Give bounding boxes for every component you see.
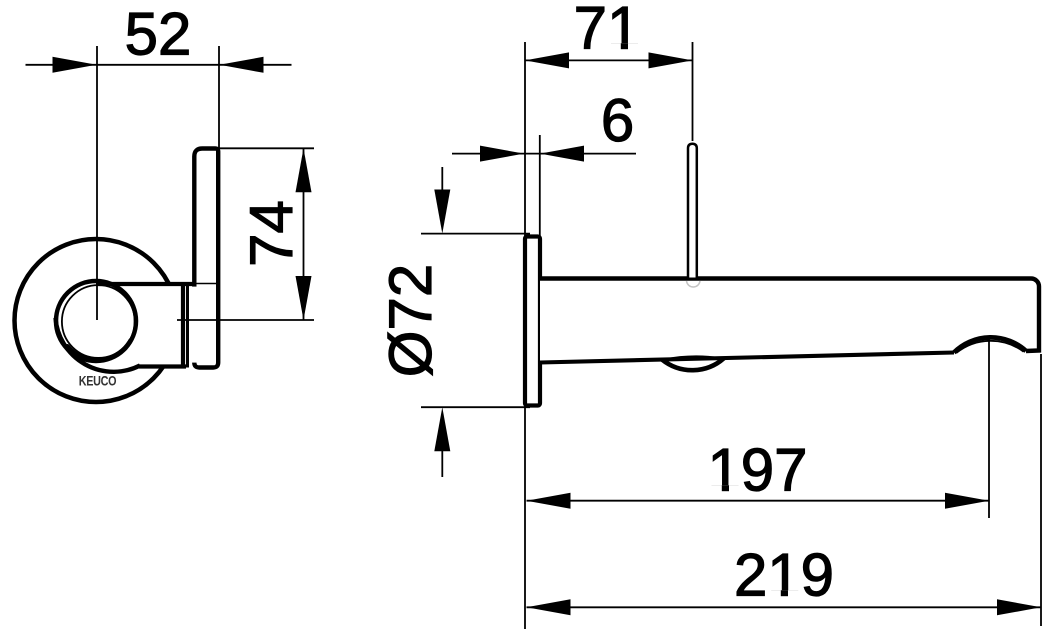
dim 52: dimension line with outside arrows bbox=[26, 57, 292, 73]
left view: hub top thin line across lever bbox=[191, 287, 197, 363]
right view: spout outlet notch double arc bbox=[954, 337, 1026, 352]
dim 74: label rotated bbox=[238, 200, 305, 267]
dim D72: bottom extension line bbox=[421, 406, 530, 408]
dim 6: dimension line with outside arrows bbox=[452, 146, 636, 162]
svg-text:219: 219 bbox=[734, 542, 834, 609]
dim 52: label bbox=[125, 1, 192, 68]
dim text foot-serif cleanup on digit 1 glyphs bbox=[607, 43, 800, 597]
dim 6: right extension line bbox=[539, 135, 541, 237]
left view: knob inner face circle bbox=[62, 285, 135, 358]
left view: hub right edge bbox=[181, 282, 185, 366]
dim 6: label bbox=[601, 87, 634, 154]
dim 71: left extension line bbox=[524, 42, 526, 629]
left view: hub rectangle white fill bbox=[98, 286, 182, 365]
dim 74: top extension line bbox=[205, 147, 314, 149]
svg-text:Ø72: Ø72 bbox=[377, 264, 444, 377]
svg-text:197: 197 bbox=[707, 437, 807, 504]
left view: hub bottom edge bbox=[139, 364, 186, 368]
left view: lever joint inner line bbox=[186, 284, 189, 368]
dim 197: dimension line with inside arrows bbox=[527, 493, 990, 509]
dim 71: right extension line bbox=[692, 42, 694, 141]
svg-text:52: 52 bbox=[125, 1, 192, 68]
right view: stick collar below spout top bbox=[687, 281, 701, 287]
left view: knob bottom crescent arc bbox=[67, 341, 130, 361]
right view: aerator bump arc under spout bbox=[662, 356, 724, 370]
dim D72: vertical line with outside arrows bbox=[434, 167, 450, 477]
dim 52: left extension line through knob center bbox=[96, 46, 98, 320]
dim 71: label bbox=[574, 0, 641, 62]
dim 71: dimension line with inside arrows bbox=[525, 52, 693, 68]
left view: lever bar bbox=[194, 149, 218, 368]
dim D72: label rotated bbox=[377, 264, 444, 377]
svg-text:71: 71 bbox=[574, 0, 641, 62]
dim D72: top extension line bbox=[421, 233, 530, 235]
right view: wall plate bbox=[525, 237, 540, 406]
dim 197: right extension line bbox=[988, 339, 990, 518]
dim 219: label bbox=[734, 542, 834, 609]
dim 74: bottom extension line bbox=[177, 319, 314, 321]
right view: spout body outline bbox=[540, 279, 1039, 367]
left view: hub top edge bbox=[96, 282, 195, 286]
left view: handle knob circle bbox=[56, 281, 136, 361]
dim 219: dimension line with inside arrows bbox=[527, 599, 1042, 615]
svg-text:6: 6 bbox=[601, 87, 634, 154]
dim 52: right extension line bbox=[218, 46, 220, 320]
left view: KEUCO logo bbox=[79, 373, 116, 388]
left view: lever sleeve sweep arc bbox=[56, 318, 141, 372]
dim 197: label bbox=[707, 437, 807, 504]
svg-text:KEUCO: KEUCO bbox=[79, 373, 116, 388]
dim 219: right extension line bbox=[1040, 354, 1042, 626]
right view: closed lever stick bbox=[688, 144, 697, 278]
dim 74: dimension line with inside arrows bbox=[296, 148, 312, 320]
left view: escutcheon plate circle bbox=[15, 239, 178, 402]
svg-text:74: 74 bbox=[238, 200, 305, 267]
